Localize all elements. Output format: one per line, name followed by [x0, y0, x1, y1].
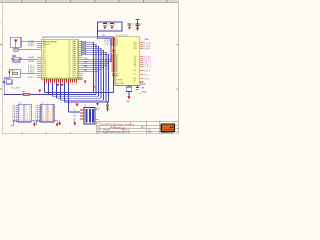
svg-text:58: 58 [69, 49, 71, 51]
svg-text:6: 6 [130, 1, 131, 3]
ground under J2 [56, 124, 59, 127]
sheet border bottom line [2, 133, 178, 135]
left zone ticks [0, 45, 179, 90]
U2 inner right pin-name column [116, 42, 138, 85]
capacitor C5 below band [106, 102, 109, 109]
svg-text:FB1: FB1 [22, 91, 25, 93]
power port cluster left margin [3, 80, 12, 84]
capacitor C4 [136, 24, 142, 28]
svg-text:SW1: SW1 [11, 71, 15, 73]
svg-text:SS2: SS2 [105, 45, 111, 47]
svg-text:MT-DB8611-A: MT-DB8611-A [113, 126, 126, 129]
wire resistor to U1 [23, 58, 38, 60]
svg-text:62: 62 [69, 41, 71, 43]
svg-text:7: 7 [154, 1, 155, 3]
svg-text:A8: A8 [116, 70, 118, 73]
wire decoupling loop top [98, 22, 123, 31]
svg-text:VB: VB [74, 116, 76, 118]
svg-text:3V3: 3V3 [102, 35, 105, 37]
wire crystal to U1 [18, 48, 37, 50]
ground under J1 [33, 124, 36, 127]
svg-text:PB7: PB7 [35, 119, 39, 121]
sheet background [0, 0, 180, 139]
U1 bottom pin number labels [44, 84, 78, 86]
power arrow at rail junction [38, 90, 41, 93]
wire bus verticals right of U1 (from top rail) [111, 37, 114, 93]
svg-text:PB8: PB8 [35, 121, 39, 123]
svg-text:VCC: VCC [144, 74, 151, 76]
top zone ticks [22, 0, 167, 3]
svg-text:45: 45 [69, 75, 71, 77]
U1 inner right pin-number column [69, 41, 71, 79]
svg-text:PD2: PD2 [84, 62, 87, 64]
svg-text:17 A: 17 A [19, 120, 25, 123]
wire VCC drop [137, 22, 139, 24]
svg-text:2: 2 [33, 1, 34, 3]
svg-text:VCC_3V3: VCC_3V3 [11, 88, 19, 90]
U2 left net labels top group [105, 39, 111, 47]
svg-text:17 A: 17 A [42, 120, 48, 123]
U2 left pins upper group [111, 39, 115, 45]
svg-text:1 / 1: 1 / 1 [148, 130, 151, 132]
svg-text:J3: J3 [84, 105, 86, 107]
switch box S1 left [8, 69, 20, 78]
svg-text:MOSI2: MOSI2 [105, 41, 111, 43]
svg-text:A GND: A GND [142, 91, 148, 94]
svg-text:59: 59 [69, 47, 71, 49]
wire left drop to bottom rail [4, 78, 43, 94]
U2 left net labels [106, 55, 108, 71]
U1 bottom pins [45, 79, 77, 83]
U1 left pins upper group [37, 41, 41, 49]
svg-text:53: 53 [69, 59, 71, 61]
svg-text:50: 50 [69, 65, 71, 67]
svg-text:51: 51 [69, 63, 71, 65]
op-amp U1 (microcontroller body) [41, 39, 78, 79]
svg-text:47: 47 [69, 71, 71, 73]
svg-text:18 B: 18 B [26, 121, 32, 123]
wire button box to U1 [21, 40, 37, 42]
wire top rail over U1 [42, 36, 98, 38]
title block frame [97, 121, 179, 133]
junction dot on band [48, 94, 49, 95]
power marks below U1 pins [57, 84, 60, 87]
left zone letters [0, 21, 2, 113]
U2 lower-right labels [141, 84, 148, 94]
svg-text:PD4: PD4 [84, 66, 87, 68]
svg-text:RESET: RESET [141, 84, 147, 86]
svg-text:XTAL: XTAL [141, 86, 145, 89]
svg-text:RESET: RESET [28, 61, 35, 63]
svg-text:C3: C3 [132, 24, 134, 26]
wire below U2 [128, 86, 130, 97]
wire left exit J1 bottom [11, 120, 17, 125]
ground arrow under C2 [110, 27, 113, 30]
svg-text:3: 3 [57, 1, 58, 3]
svg-text:5: 5 [106, 1, 107, 3]
power pin mark right-below U1 [93, 86, 96, 89]
svg-text:6/14/2013: 6/14/2013 [103, 130, 110, 132]
svg-text:D3: D3 [116, 45, 118, 47]
svg-text:48: 48 [69, 69, 71, 71]
ground left-bottom of J3 [73, 120, 76, 126]
date and file small blue [102, 130, 151, 135]
svg-text:Drawn By:: Drawn By: [123, 132, 131, 134]
net labels on lower wires [84, 58, 87, 72]
power arrow near band end [96, 103, 100, 110]
capacitor C2 [110, 22, 116, 26]
svg-text:PB0: PB0 [35, 106, 39, 108]
ground under C5 [106, 109, 109, 112]
resistor array right of U1 [81, 41, 86, 55]
svg-text:52: 52 [69, 61, 71, 63]
svg-text:D+: D+ [74, 110, 76, 112]
bottom zone ticks [22, 133, 71, 134]
ground mid-bottom [58, 120, 61, 126]
svg-text:MT-DB8611 (ATxmega) Connector: MT-DB8611 (ATxmega) Connector [101, 123, 135, 126]
U1 inner bottom pin-name row [44, 78, 78, 80]
logo badge [161, 124, 175, 132]
svg-text:60: 60 [69, 45, 71, 47]
op-amp U2 (interface IC body) [115, 37, 140, 86]
power port button box left top [10, 37, 21, 47]
svg-text:55: 55 [69, 55, 71, 57]
svg-text:61: 61 [69, 43, 71, 45]
ground under R2 [128, 96, 131, 99]
U1 left net labels [28, 41, 35, 79]
svg-text:PB1: PB1 [35, 107, 39, 109]
junction dots on bus [98, 59, 114, 72]
svg-text:SCK2: SCK2 [105, 43, 111, 45]
svg-text:XTAL1: XTAL1 [28, 44, 34, 47]
svg-text:C4: C4 [140, 24, 142, 26]
svg-text:CS1: CS1 [144, 66, 151, 68]
capacitor C6 right of R2 [136, 86, 139, 90]
svg-text:57: 57 [69, 51, 71, 53]
svg-text:GND: GND [144, 70, 151, 72]
ground arrow under C1 [103, 27, 106, 30]
svg-text:C2: C2 [114, 24, 116, 26]
ferrite bead FB1 on rail [22, 91, 31, 95]
wire band right-top link [94, 92, 114, 94]
U2 right net labels [144, 42, 151, 80]
no-connect marker left of U2 [112, 50, 115, 76]
svg-text:PD0: PD0 [84, 58, 87, 60]
svg-text:K:\proj\MT-DB8611.SchDoc: K:\proj\MT-DB8611.SchDoc [102, 132, 122, 134]
wire drop to J3 [69, 111, 81, 113]
power arrow below U1 pins [84, 80, 87, 83]
svg-text:OSC GND: OSC GND [116, 83, 125, 85]
svg-text:46: 46 [69, 73, 71, 75]
svg-text:PD6: PD6 [84, 70, 87, 72]
U1 inner left pin-name column [43, 41, 46, 79]
svg-text:56: 56 [69, 53, 71, 55]
wire staircase from U1 bottom pins [45, 83, 69, 112]
capacitor C3 [128, 23, 134, 27]
power port VCC top [136, 20, 140, 22]
crystal Y1 below button box [12, 47, 18, 56]
ground arrow under C3 [128, 27, 131, 30]
U2 inner left pin-name column [116, 39, 119, 78]
wire switch to U1 [20, 72, 37, 74]
svg-text:PB3: PB3 [35, 111, 39, 113]
svg-text:8: 8 [172, 1, 173, 3]
title block texts [97, 121, 145, 134]
svg-text:1: 1 [10, 1, 11, 3]
svg-text:IO5: IO5 [134, 66, 137, 68]
connector J2 [35, 102, 57, 123]
U1 right pins [78, 41, 83, 79]
sheet border left line [1, 3, 3, 134]
svg-text:B: B [0, 66, 1, 68]
connector J1 [13, 102, 35, 123]
svg-text:VREGIN: VREGIN [116, 80, 123, 82]
capacitor C1 [103, 22, 109, 26]
U1 left pins lower group [37, 57, 41, 77]
resistor block R1 left [11, 58, 23, 63]
ground arrow under C4 [136, 28, 139, 31]
wires from lower U1 pins to bus [83, 59, 114, 71]
svg-text:OSC: OSC [144, 78, 150, 80]
svg-text:PB6: PB6 [35, 117, 39, 119]
U2 left pins lower group [111, 55, 115, 71]
svg-text:4: 4 [82, 1, 83, 3]
U1 inner right pin-name column [73, 40, 77, 79]
svg-text:PB5: PB5 [35, 115, 39, 117]
svg-text:49: 49 [69, 67, 71, 69]
svg-text:JWP: JWP [148, 132, 151, 134]
svg-text:Rev: Rev [142, 126, 145, 128]
wire ribbon band horizontals [44, 93, 109, 102]
top zone numbers [10, 1, 173, 3]
svg-text:MISO: MISO [28, 77, 35, 79]
svg-text:TMS: TMS [144, 48, 151, 50]
U2 right pins [140, 43, 144, 82]
resistor R2 below U2 [126, 87, 132, 92]
svg-text:Size: Size [97, 126, 100, 128]
svg-text:PB4: PB4 [35, 113, 39, 115]
svg-text:54: 54 [69, 57, 71, 59]
sheet border right line [178, 2, 180, 134]
svg-text:18 B: 18 B [48, 121, 54, 123]
svg-text:C1: C1 [107, 24, 109, 26]
wire top horizontals joining loop to bus [98, 31, 114, 39]
power arrow left of J3 [76, 104, 79, 107]
sheet border top zone band [0, 0, 179, 2]
wire band right-top link [94, 92, 114, 94]
svg-text:U2 FT2232H: U2 FT2232H [116, 35, 128, 37]
connector J3 (striped header) [74, 105, 99, 124]
wire left exit J2 bottom [37, 120, 40, 125]
svg-text:B7: B7 [106, 69, 108, 71]
wires from resistors turning down (nested corners) [86, 42, 109, 102]
svg-text:JTAG: JTAG [144, 38, 149, 41]
svg-text:PB2: PB2 [35, 109, 39, 111]
